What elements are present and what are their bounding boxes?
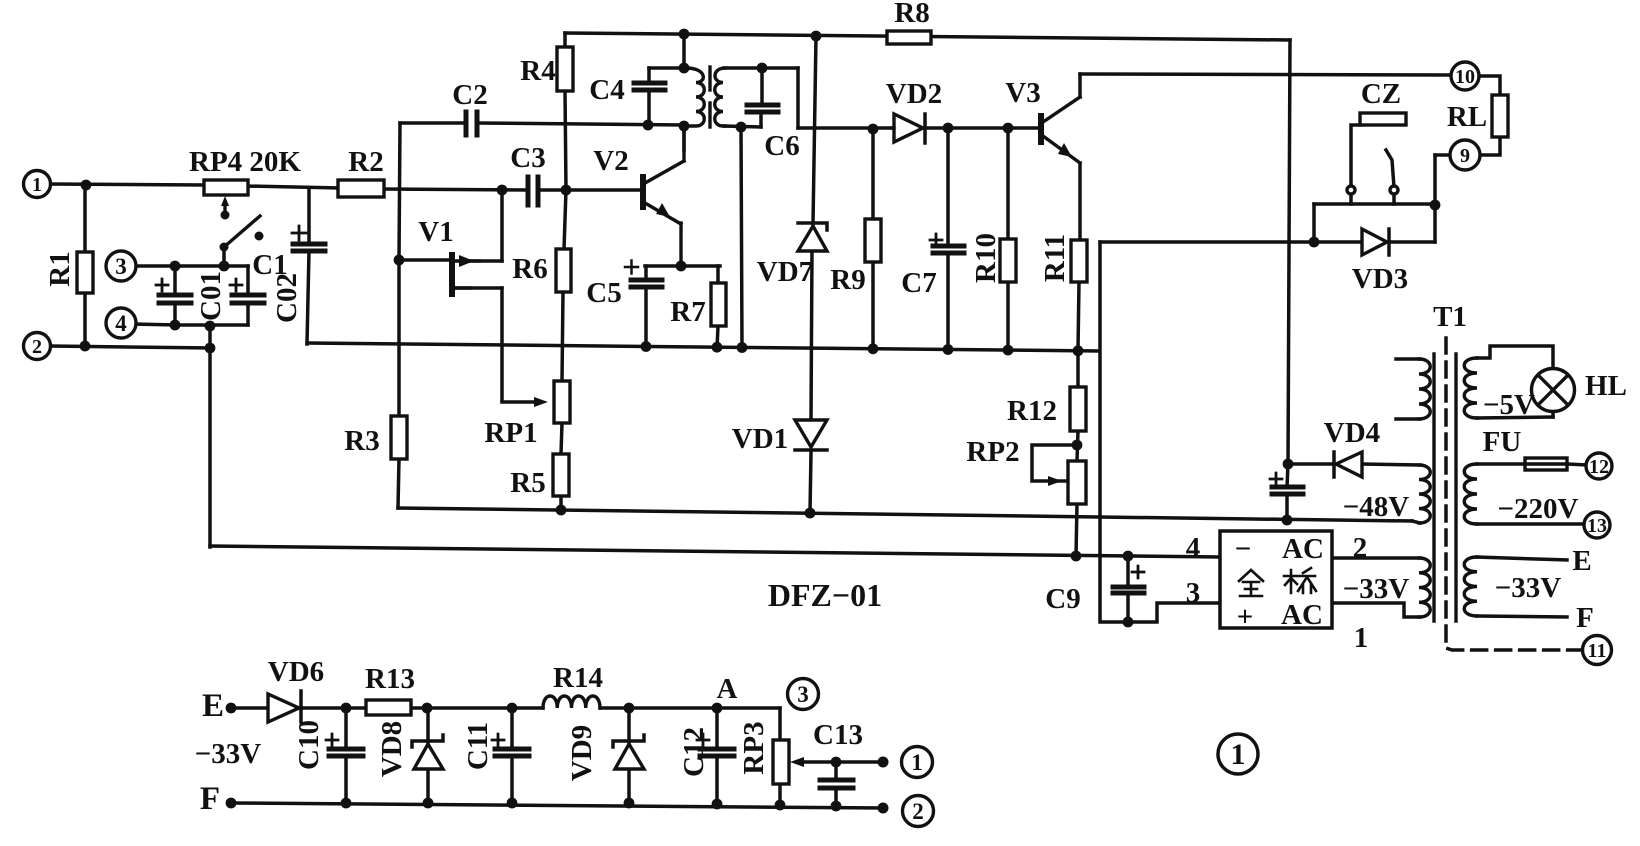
svg-text:R8: R8 bbox=[894, 0, 929, 29]
zener diode VD9 bbox=[615, 744, 644, 769]
junction R1 top / terminal1 wire bbox=[81, 180, 92, 191]
wire V1 base to R3 bbox=[397, 260, 401, 416]
svg-text:VD4: VD4 bbox=[1324, 417, 1380, 449]
terminal 10 bbox=[1451, 62, 1479, 90]
junction C12 bottom on F rail bbox=[712, 799, 723, 810]
resistor R10 bbox=[1000, 239, 1016, 282]
bridge rectifier box bbox=[1220, 531, 1332, 628]
junction VD4 node / top bus drop bbox=[1283, 459, 1294, 470]
svg-text:VD9: VD9 bbox=[566, 725, 598, 781]
wire switch pivot to block bbox=[222, 246, 226, 267]
wire RP2 wiper loop bbox=[1032, 445, 1077, 481]
figure number circle bbox=[1218, 734, 1258, 774]
junction C10 bottom on F rail bbox=[341, 798, 352, 809]
svg-text:1: 1 bbox=[1354, 622, 1369, 654]
svg-text:RP2: RP2 bbox=[966, 436, 1019, 468]
wire bottom rail E to RP3 bbox=[231, 706, 270, 710]
wire bridge pin1 to -33V winding bbox=[1332, 603, 1420, 617]
node switch pivot bbox=[220, 243, 229, 252]
junction R2 right / V1 emitter / C3 bbox=[497, 185, 508, 196]
junction C11 bottom on F rail bbox=[507, 798, 518, 809]
svg-text:R11: R11 bbox=[1039, 234, 1071, 282]
wire C9 stems bbox=[1126, 556, 1130, 587]
wire R10 stems bbox=[1006, 128, 1010, 239]
wire C5 stems bbox=[644, 266, 648, 280]
potentiometer RP3 bbox=[773, 740, 789, 784]
junction VD8 bottom on F rail bbox=[423, 798, 434, 809]
svg-text:DFZ−01: DFZ−01 bbox=[768, 577, 882, 613]
resistor R1 bbox=[77, 252, 93, 293]
capacitor C12 bbox=[700, 747, 734, 752]
wire R7 stems bbox=[716, 266, 720, 283]
svg-text:F: F bbox=[200, 781, 220, 817]
resistor R3 bbox=[391, 416, 407, 459]
svg-text:VD3: VD3 bbox=[1352, 263, 1408, 295]
wire R1 leads bbox=[83, 184, 87, 252]
wire C10 stems bbox=[344, 708, 348, 749]
junction C4 bottom stem bbox=[643, 120, 654, 131]
svg-text:12: 12 bbox=[1589, 456, 1609, 478]
junction C8 bottom on lower mid line bbox=[1282, 515, 1293, 526]
wire R6 chain bbox=[564, 190, 566, 249]
diode VD3 bbox=[1362, 229, 1387, 255]
capacitor C9 bbox=[1113, 585, 1144, 590]
wire C1 stems bbox=[307, 188, 311, 244]
terminal 2 bottom bbox=[903, 796, 934, 827]
wire R9 stems bbox=[871, 129, 875, 219]
svg-text:A: A bbox=[717, 673, 738, 705]
wire C12 stems bbox=[715, 708, 719, 749]
svg-text:RL: RL bbox=[1447, 101, 1487, 133]
capacitor C8 bbox=[1272, 485, 1303, 490]
svg-text:RP3: RP3 bbox=[738, 721, 770, 774]
resistor R11 bbox=[1071, 240, 1087, 282]
wire C2 right to C4 bottom node bbox=[477, 123, 684, 125]
resistor R4 bbox=[557, 47, 573, 91]
svg-text:F: F bbox=[1576, 602, 1594, 634]
wire top bus bbox=[565, 33, 1290, 40]
resistor RL bbox=[1492, 95, 1508, 137]
junction R4 bottom / C3 right / R6 top bbox=[561, 185, 572, 196]
capacitor C10 bbox=[329, 747, 363, 752]
capacitor C13 bbox=[820, 778, 853, 783]
terminal 3 bbox=[106, 251, 136, 281]
junction VD3 anode / CZ left contact bbox=[1309, 237, 1320, 248]
junction V2 emitter / C5 R7 wire bbox=[676, 261, 687, 272]
svg-text:2: 2 bbox=[32, 336, 42, 358]
zener diode VD8 bbox=[414, 744, 443, 769]
svg-text:−33V: −33V bbox=[1343, 573, 1410, 605]
wire -5V winding to HL lamp bbox=[1477, 346, 1553, 369]
junction RP2 bottom on return bus bbox=[1071, 551, 1082, 562]
junction VD9 top on E rail bbox=[624, 703, 635, 714]
svg-text:−: − bbox=[1235, 533, 1252, 565]
junction C4 top / T2 primary top bbox=[679, 63, 690, 74]
node F lead dot bbox=[226, 798, 237, 809]
svg-text:2: 2 bbox=[1353, 532, 1368, 564]
capacitor C02 bbox=[232, 293, 264, 298]
junction C7 top on VD2 wire bbox=[943, 123, 954, 134]
junction terminal2 wire to down wire bbox=[205, 343, 216, 354]
svg-text:T1: T1 bbox=[1433, 301, 1467, 333]
svg-text:−48V: −48V bbox=[1343, 491, 1410, 523]
node switch open contact bbox=[255, 232, 264, 241]
svg-text:10: 10 bbox=[1455, 66, 1475, 88]
junction C7 bottom on common bus bbox=[943, 344, 954, 355]
svg-text:HL: HL bbox=[1585, 370, 1627, 402]
terminal 13 bbox=[1584, 512, 1610, 538]
wire RP3 wiper to terminal 1 bbox=[800, 760, 884, 764]
svg-text:4: 4 bbox=[115, 311, 127, 336]
svg-text:3: 3 bbox=[797, 682, 809, 707]
wire V1 emitter to R2 right node bbox=[456, 259, 502, 263]
potentiometer RP1 bbox=[554, 381, 570, 423]
svg-text:3: 3 bbox=[115, 254, 127, 279]
svg-text:−33V: −33V bbox=[1495, 572, 1562, 604]
wire terminal1 to RP4 to R2 to C3 to V2 base bbox=[50, 184, 204, 185]
capacitor C5 bbox=[631, 278, 662, 283]
svg-text:C9: C9 bbox=[1045, 583, 1080, 615]
diode VD6 bbox=[268, 694, 299, 722]
potentiometer RP4 bbox=[204, 180, 248, 195]
resistor R9 bbox=[865, 219, 881, 262]
svg-text:C01: C01 bbox=[195, 271, 227, 321]
svg-text:VD1: VD1 bbox=[732, 423, 788, 455]
wire bottom rail F bbox=[231, 803, 884, 808]
wire C01 stems bbox=[173, 265, 177, 295]
terminal 2 bbox=[24, 333, 51, 360]
svg-text:C6: C6 bbox=[764, 130, 799, 162]
svg-text:AC: AC bbox=[1281, 599, 1323, 631]
svg-text:R10: R10 bbox=[970, 233, 1002, 283]
wire VD8 stems bbox=[426, 708, 430, 742]
resistor R7 bbox=[711, 283, 726, 326]
junction top bus / VD7 branch bbox=[811, 31, 822, 42]
wire C2 left lead down to V1 base bbox=[400, 121, 466, 125]
svg-text:−5V: −5V bbox=[1483, 389, 1535, 421]
diode VD2 bbox=[894, 114, 923, 142]
wire terminal10 to RL to terminal9 bbox=[1479, 76, 1500, 95]
wire C6 stems bbox=[760, 68, 764, 105]
svg-text:R5: R5 bbox=[510, 467, 545, 499]
junction C10 top on E rail bbox=[341, 703, 352, 714]
capacitor C1 bbox=[293, 242, 325, 247]
wire T2 secondary top to C6 and down bbox=[724, 66, 798, 70]
svg-text:E: E bbox=[202, 688, 224, 724]
resistor R8 bbox=[887, 31, 931, 44]
svg-text:1: 1 bbox=[911, 750, 923, 775]
wire VD4 row bbox=[1288, 462, 1334, 466]
resistor R6 bbox=[556, 249, 571, 292]
svg-text:R7: R7 bbox=[670, 296, 705, 328]
wire C11 stems bbox=[510, 708, 514, 749]
svg-text:3: 3 bbox=[1186, 577, 1201, 609]
junction R12 bottom / RP2 wiper bbox=[1072, 440, 1083, 451]
diode VD4 bbox=[1336, 452, 1362, 477]
svg-text:R9: R9 bbox=[830, 264, 865, 296]
junction RP3 bottom on F rail bbox=[775, 800, 786, 811]
wire VD7 VD1 chain bbox=[813, 36, 816, 224]
capacitor C7 bbox=[933, 244, 964, 249]
svg-text:R12: R12 bbox=[1007, 395, 1057, 427]
terminal 3 bottom bbox=[788, 679, 819, 710]
node wire end at terminal1 bottom bbox=[878, 757, 889, 768]
junction R11 bottom / R12 top on common bus bbox=[1073, 345, 1084, 356]
svg-text:C11: C11 bbox=[462, 722, 494, 770]
wire C7 stems bbox=[946, 128, 950, 246]
wire common down line to bridge pin3 bbox=[1100, 242, 1220, 622]
svg-text:E: E bbox=[1572, 545, 1591, 577]
wire bridge pin2 to -33V winding bbox=[1332, 556, 1420, 560]
wire terminal3 to C block bbox=[133, 264, 248, 268]
transformer T1 right windings bbox=[1464, 358, 1477, 418]
wire long return bus to bridge pin4 bbox=[210, 546, 1220, 557]
junction C5 bottom on common bus bbox=[641, 341, 652, 352]
junction top bus / T2 primary top bbox=[679, 29, 690, 40]
terminal 9 bbox=[1450, 140, 1480, 170]
RP3 wiper arrow bbox=[790, 757, 804, 767]
wire shield dashed to terminal 11 bbox=[1446, 338, 1584, 650]
svg-text:C4: C4 bbox=[589, 74, 624, 106]
wire VD3 row bbox=[1100, 240, 1362, 244]
capacitor C11 bbox=[495, 747, 529, 752]
transformer T2 primary winding bbox=[686, 68, 704, 126]
junction T2 secondary bottom / C6 bottom bbox=[736, 122, 747, 133]
svg-text:AC: AC bbox=[1282, 533, 1324, 565]
wire main common bus bbox=[307, 343, 1099, 351]
wire terminal2 bbox=[50, 346, 211, 348]
svg-text:C2: C2 bbox=[452, 79, 487, 111]
transistor V2 bbox=[640, 177, 646, 207]
wire down from block to long return bus bbox=[208, 325, 212, 547]
node E lead dot bbox=[226, 703, 237, 714]
transformer T2 secondary winding bbox=[715, 68, 725, 126]
wire R12 chain bbox=[1076, 350, 1080, 387]
svg-text:V3: V3 bbox=[1005, 77, 1040, 109]
wire V1 base lead bbox=[399, 258, 450, 262]
junction C12 top on E rail bbox=[712, 703, 723, 714]
terminal 1 bottom bbox=[902, 747, 933, 778]
junction R5 bottom on lower mid line bbox=[556, 505, 567, 516]
fuse FU bbox=[1525, 458, 1567, 470]
potentiometer RP2 bbox=[1068, 461, 1086, 504]
junction C4 bottom / T2 primary bottom / V2 collector bbox=[679, 121, 690, 132]
terminal 12 bbox=[1586, 453, 1612, 479]
node RP4 wiper contact bbox=[221, 211, 230, 220]
svg-text:C02: C02 bbox=[271, 273, 303, 323]
wire V3 collector to terminal 10 bbox=[1078, 74, 1082, 97]
switch arm bbox=[224, 216, 260, 247]
wire -33V secondary E F leads bbox=[1477, 557, 1567, 560]
resistor R13 bbox=[366, 700, 411, 715]
wire C13 stems bbox=[834, 762, 838, 780]
junction R1 bottom / terminal2 wire bbox=[80, 341, 91, 352]
svg-text:V2: V2 bbox=[593, 145, 628, 177]
junction VD8 top on E rail bbox=[422, 703, 433, 714]
transformer T1 left windings bbox=[1419, 359, 1430, 419]
capacitor C3 bbox=[526, 177, 531, 205]
wire R4 bottom to C3 node bbox=[565, 91, 566, 190]
junction C13 bottom on F rail bbox=[831, 801, 842, 812]
inductor R14 bbox=[543, 696, 600, 708]
svg-text:1: 1 bbox=[1231, 738, 1246, 771]
wire V2 emitter bus bbox=[645, 264, 720, 268]
svg-text:−33V: −33V bbox=[195, 738, 262, 770]
svg-text:VD8: VD8 bbox=[376, 721, 408, 777]
svg-text:RP1: RP1 bbox=[484, 417, 537, 449]
wire terminal4 to C block bbox=[133, 324, 175, 325]
svg-text:9: 9 bbox=[1460, 145, 1470, 167]
junction R9 top on VD2 wire bbox=[868, 124, 879, 135]
junction VD1 bottom on lower mid line bbox=[805, 508, 816, 519]
svg-text:C12: C12 bbox=[678, 727, 710, 777]
transistor V3 bbox=[1038, 116, 1044, 142]
CZ contact circles bbox=[1347, 186, 1355, 194]
bridge text qiao bbox=[1284, 568, 1316, 593]
wire C02 stems bbox=[246, 266, 250, 295]
wire VD9 stems bbox=[627, 708, 631, 742]
svg-text:R4: R4 bbox=[520, 55, 555, 87]
wire VD2 cathode to V3 base bbox=[926, 126, 1038, 130]
junction VD3 cathode / CZ right contact / terminal9 wire bbox=[1430, 200, 1441, 211]
wire V2 collector bbox=[682, 126, 686, 150]
svg-text:FU: FU bbox=[1483, 426, 1522, 458]
junction C01 top / terminal3 wire bbox=[170, 261, 181, 272]
transformer T1 core bbox=[1432, 354, 1435, 621]
svg-text:1: 1 bbox=[32, 174, 42, 196]
junction C9 top on return bus bbox=[1123, 551, 1134, 562]
svg-text:C3: C3 bbox=[510, 142, 545, 174]
wire -220V winding to FU and terminals bbox=[1477, 462, 1525, 466]
wire CZ jack bar bbox=[1314, 202, 1435, 206]
bridge text quan bbox=[1239, 570, 1263, 596]
junction T2 secondary top / C6 top bbox=[757, 63, 768, 74]
lamp HL bbox=[1532, 369, 1575, 412]
svg-text:R2: R2 bbox=[348, 146, 383, 178]
wire R4 top bbox=[563, 33, 567, 47]
junction C01 bottom / terminal4 wire bbox=[170, 320, 181, 331]
svg-text:C10: C10 bbox=[293, 720, 325, 770]
junction V1 base / C2 branch bbox=[394, 255, 405, 266]
transformer T2 core bbox=[708, 67, 711, 90]
svg-text:11: 11 bbox=[1588, 640, 1607, 662]
terminal 1 bbox=[24, 171, 51, 198]
resistor R5 bbox=[553, 454, 569, 496]
transistor V1 bbox=[449, 255, 455, 294]
capacitor C6 bbox=[747, 103, 778, 108]
zener diode VD7 bbox=[798, 226, 827, 251]
junction C9 bottom on bridge plus wire bbox=[1123, 617, 1134, 628]
svg-text:R6: R6 bbox=[512, 253, 547, 285]
diode VD1 bbox=[795, 420, 827, 447]
svg-text:2: 2 bbox=[912, 799, 924, 824]
svg-text:+: + bbox=[1237, 601, 1254, 633]
junction R9 bottom on common bus bbox=[868, 343, 879, 354]
wire C4 stems and top link bbox=[647, 68, 651, 83]
capacitor C01 bbox=[159, 293, 191, 298]
svg-text:VD7: VD7 bbox=[757, 256, 813, 288]
svg-text:R14: R14 bbox=[553, 662, 603, 694]
svg-text:V1: V1 bbox=[418, 216, 453, 248]
capacitor C4 bbox=[634, 81, 665, 86]
svg-text:C5: C5 bbox=[586, 277, 621, 309]
capacitor C2 bbox=[464, 112, 469, 135]
wire T2 secondary bottom to C6 bottom bbox=[724, 126, 761, 127]
svg-text:C13: C13 bbox=[813, 719, 863, 751]
svg-text:R1: R1 bbox=[44, 251, 76, 286]
resistor R12 bbox=[1070, 387, 1086, 431]
terminal 4 bbox=[106, 308, 136, 338]
junction C6 branch on common bus bbox=[737, 342, 748, 353]
svg-text:R3: R3 bbox=[344, 425, 379, 457]
junction C13 top / RP3 wiper wire bbox=[831, 757, 842, 768]
wire C8 stems bbox=[1287, 464, 1288, 487]
junction C block bottom rail to down wire bbox=[205, 321, 216, 332]
svg-text:C7: C7 bbox=[901, 267, 936, 299]
wire lower mid line R3 to -48V winding bbox=[398, 508, 1412, 521]
wire T1 primary stub leads bbox=[1396, 357, 1420, 361]
svg-text:−220V: −220V bbox=[1498, 493, 1579, 525]
terminal 11 bbox=[1583, 636, 1612, 665]
svg-text:CZ: CZ bbox=[1361, 78, 1401, 110]
RP1 wiper arrow bbox=[534, 397, 548, 407]
RP2 wiper arrow bbox=[1048, 476, 1062, 486]
junction R10 bottom on common bus bbox=[1003, 345, 1014, 356]
svg-text:13: 13 bbox=[1587, 515, 1607, 537]
svg-text:VD2: VD2 bbox=[886, 78, 942, 110]
wire V1 collector down to RP1 wiper bbox=[455, 286, 502, 290]
svg-text:VD6: VD6 bbox=[268, 656, 324, 688]
svg-text:RP4 20K: RP4 20K bbox=[189, 146, 301, 178]
resistor R2 bbox=[338, 180, 384, 197]
junction R7 bottom on common bus bbox=[712, 342, 723, 353]
relay socket CZ coil box bbox=[1360, 113, 1406, 125]
svg-text:4: 4 bbox=[1186, 532, 1201, 564]
RP4 wiper arrow bbox=[223, 203, 226, 213]
node wire end at terminal2 bottom bbox=[878, 803, 889, 814]
svg-text:R13: R13 bbox=[365, 663, 415, 695]
junction switch to C block top rail bbox=[219, 261, 230, 272]
junction VD9 bottom on F rail bbox=[624, 798, 635, 809]
wire V3 emitter to R11 bbox=[1078, 163, 1082, 240]
junction R10 top on V3 base wire bbox=[1003, 123, 1014, 134]
junction C11 top on E rail bbox=[507, 703, 518, 714]
